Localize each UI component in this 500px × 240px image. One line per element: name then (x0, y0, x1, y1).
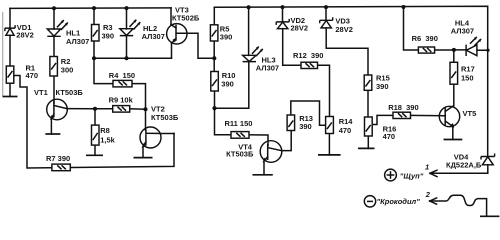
svg-text:"Щуп": "Щуп" (400, 171, 424, 180)
svg-text:КТ503Б: КТ503Б (226, 150, 254, 159)
svg-text:КД522А,Б: КД522А,Б (446, 161, 482, 170)
svg-text:VD3: VD3 (335, 17, 350, 26)
svg-text:"Крокодил": "Крокодил" (377, 197, 421, 206)
svg-text:470: 470 (26, 71, 39, 80)
svg-text:АЛ307: АЛ307 (256, 64, 279, 73)
svg-text:R8: R8 (100, 126, 110, 135)
svg-text:28V2: 28V2 (16, 31, 34, 40)
svg-text:R11 150: R11 150 (225, 119, 253, 128)
svg-text:390: 390 (220, 33, 233, 42)
svg-text:АЛ307: АЛ307 (66, 37, 89, 46)
svg-text:КТ503Б: КТ503Б (151, 113, 179, 122)
svg-text:28V2: 28V2 (335, 25, 353, 34)
svg-text:R12 390: R12 390 (293, 51, 323, 60)
svg-text:R6 390: R6 390 (412, 34, 438, 43)
svg-text:390: 390 (221, 80, 234, 89)
svg-text:28V2: 28V2 (291, 23, 309, 32)
svg-text:R7 390: R7 390 (46, 154, 70, 163)
svg-text:470: 470 (383, 132, 396, 141)
svg-text:390: 390 (376, 82, 389, 91)
svg-text:1,5k: 1,5k (100, 136, 115, 145)
svg-text:1: 1 (425, 162, 429, 171)
svg-text:390: 390 (102, 31, 115, 40)
svg-text:КТ503Б: КТ503Б (56, 88, 84, 97)
svg-text:VT5: VT5 (463, 109, 477, 118)
svg-text:R17: R17 (461, 65, 475, 74)
svg-text:R18 390: R18 390 (388, 103, 418, 112)
svg-text:150: 150 (461, 73, 474, 82)
svg-text:R9 10k: R9 10k (109, 96, 134, 105)
svg-text:КТ502Б: КТ502Б (172, 14, 200, 23)
svg-text:R4 150: R4 150 (109, 71, 135, 80)
svg-text:АЛ307: АЛ307 (451, 27, 474, 36)
svg-text:VT1: VT1 (34, 88, 48, 97)
svg-text:470: 470 (339, 126, 352, 135)
svg-text:АЛ307: АЛ307 (142, 32, 165, 41)
svg-text:2: 2 (425, 190, 431, 199)
svg-text:300: 300 (61, 65, 74, 74)
svg-text:390: 390 (299, 122, 312, 131)
